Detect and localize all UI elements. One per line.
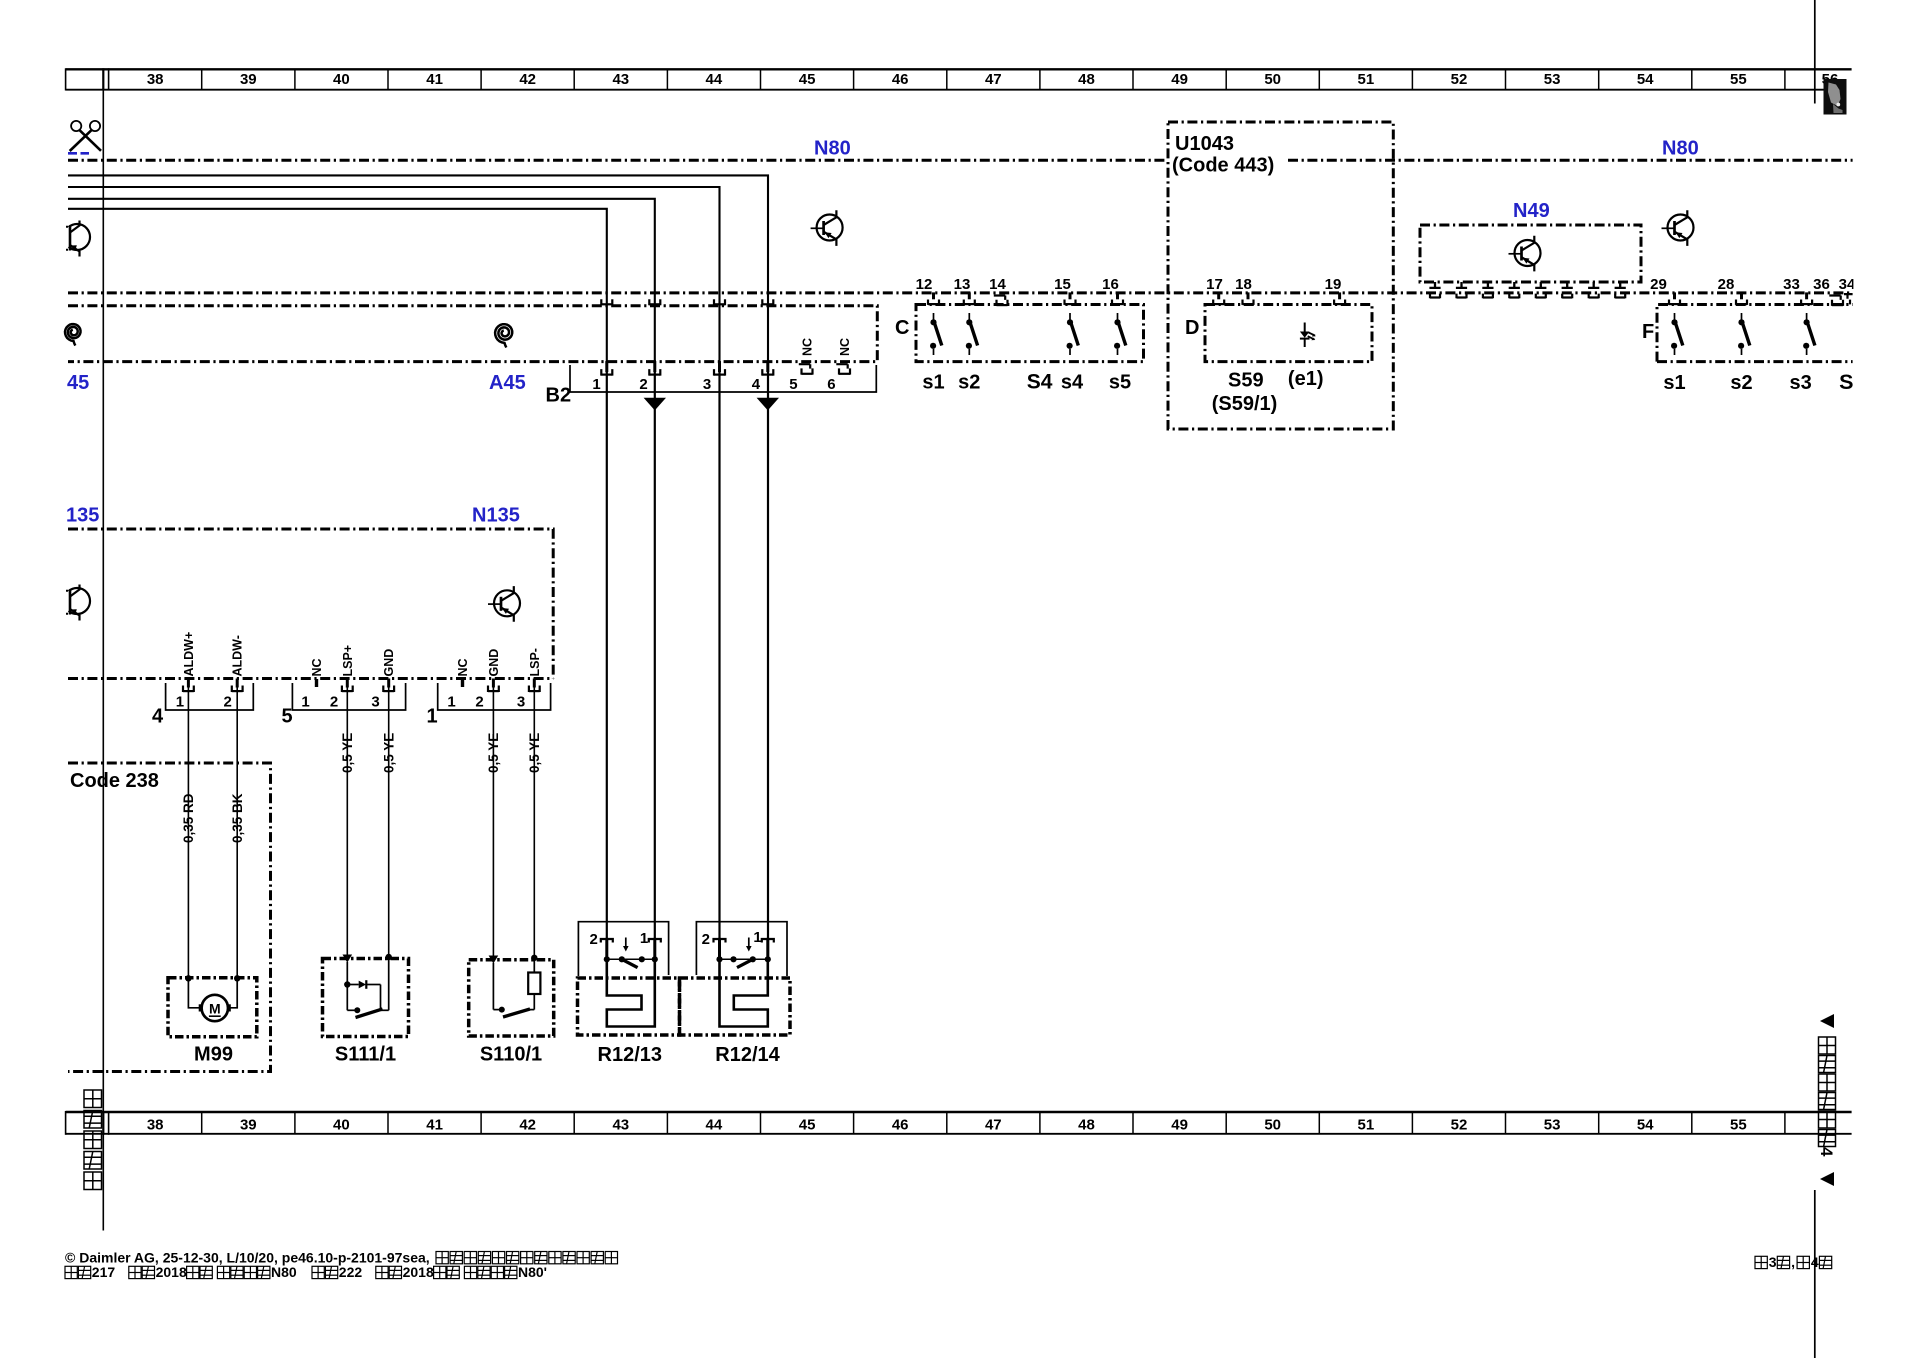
control unit N80 border line (left segment) — [68, 159, 1168, 162]
svg-text:C: C — [895, 317, 909, 339]
vertical text paste-page-4 (CJK placeholder glyphs) — [1817, 1037, 1836, 1157]
svg-text:43: 43 — [612, 71, 629, 88]
svg-text:50: 50 — [1264, 71, 1281, 88]
node M99 pin left — [185, 975, 191, 981]
control unit N135 border — [68, 529, 553, 679]
N49 pin — [1562, 282, 1573, 298]
wire S111/1 left — [346, 679, 348, 955]
N49 pin — [1429, 282, 1440, 298]
svg-text:42: 42 — [519, 71, 536, 88]
svg-text:(S59/1): (S59/1) — [1212, 393, 1278, 415]
node M99 pin right — [234, 975, 240, 981]
control unit A45 border — [68, 306, 877, 362]
svg-text:s5: s5 — [1109, 372, 1131, 394]
paste page 4 marker triangle (top) — [1820, 1014, 1834, 1028]
C pin 13 — [964, 292, 975, 305]
svg-text:1: 1 — [640, 930, 648, 947]
svg-text:U1043: U1043 — [1175, 133, 1234, 155]
grid ruler top — [66, 68, 1852, 90]
svg-text:135: 135 — [66, 505, 99, 527]
S111/1 entry arrow left — [343, 955, 353, 963]
svg-text:18: 18 — [1235, 276, 1252, 293]
F pin 36 (NC) — [1829, 296, 1843, 306]
R12/13 heater element — [607, 959, 655, 1026]
svg-text:5: 5 — [789, 376, 797, 393]
svg-text:52: 52 — [1451, 1116, 1468, 1133]
svg-text:s4: s4 — [1061, 372, 1084, 394]
svg-text:41: 41 — [426, 71, 443, 88]
svg-text:1: 1 — [447, 694, 455, 711]
svg-text:(e1): (e1) — [1288, 368, 1324, 390]
bus border line y293 — [68, 291, 1853, 294]
R12/14 switch — [716, 956, 771, 967]
svg-text:55: 55 — [1730, 1116, 1747, 1133]
group1 pin 2 — [488, 679, 499, 693]
svg-text:16: 16 — [1102, 276, 1119, 293]
svg-text:2: 2 — [590, 931, 598, 948]
svg-text:3: 3 — [703, 376, 711, 393]
svg-text:R12/14: R12/14 — [715, 1044, 780, 1066]
B2 pin 4 — [762, 361, 773, 376]
svg-text:GND: GND — [382, 649, 396, 677]
S110/1 internal circuit — [493, 958, 540, 1017]
svg-text:© Daimler AG, 25-12-30, L/10: © Daimler AG, 25-12-30, L/10/20, pe46.10… — [65, 1250, 430, 1266]
svg-text:s1: s1 — [1663, 372, 1685, 394]
svg-text:2: 2 — [702, 931, 710, 948]
svg-text:3: 3 — [1769, 1254, 1777, 1270]
svg-text:40: 40 — [333, 1116, 350, 1133]
svg-text:2: 2 — [224, 694, 232, 711]
svg-text:42: 42 — [519, 1116, 536, 1133]
svg-text:0,5 YE: 0,5 YE — [527, 733, 542, 773]
S59 pin 19 — [1334, 292, 1345, 305]
R12/13 pin 1 — [649, 938, 661, 960]
svg-text:3: 3 — [371, 694, 379, 711]
footer page number — [1755, 1254, 1832, 1270]
group1 pin 3 — [529, 679, 540, 693]
C pin 15 — [1065, 292, 1076, 305]
wire S110/1 left — [492, 679, 494, 956]
svg-text:5: 5 — [281, 706, 292, 728]
svg-text:NC: NC — [838, 338, 852, 356]
control unit N80 border line (right segment) — [1288, 159, 1853, 162]
svg-text:40: 40 — [333, 71, 350, 88]
svg-text:0,5 YE: 0,5 YE — [340, 733, 355, 773]
motor M99 box — [168, 978, 257, 1037]
R12/14 actuate arrow — [748, 938, 750, 947]
svg-text:28: 28 — [1718, 276, 1735, 293]
B2 pin 2 — [649, 361, 660, 376]
svg-text:2018: 2018 — [403, 1264, 434, 1280]
switch s2 in C — [966, 313, 978, 355]
C pin 12 — [928, 292, 939, 305]
svg-text:54: 54 — [1637, 1116, 1654, 1133]
svg-text:0,35 RD: 0,35 RD — [181, 793, 196, 843]
group5 pin 1 NC tick — [315, 679, 318, 687]
svg-text:44: 44 — [706, 71, 723, 88]
svg-text:43: 43 — [612, 1116, 629, 1133]
svg-text:1: 1 — [301, 694, 309, 711]
grid ruler bottom — [66, 1111, 1852, 1135]
svg-text:3: 3 — [517, 694, 525, 711]
svg-text:55: 55 — [1730, 71, 1747, 88]
svg-text:4: 4 — [1811, 1254, 1819, 1270]
N49 pin — [1615, 282, 1626, 298]
svg-text:ALDW+: ALDW+ — [182, 632, 196, 677]
shield symbol triangle — [644, 398, 666, 411]
B2 NC pin — [836, 364, 850, 374]
C pin 14 (NC) — [994, 296, 1008, 306]
resistor heater R12/13 box (solid) — [578, 922, 668, 976]
switch s1 in F — [1671, 313, 1683, 355]
transistor symbol (left edge lower, cut) — [66, 585, 90, 621]
svg-text:45: 45 — [799, 1116, 816, 1133]
control unit U1043 border — [1168, 122, 1393, 429]
svg-text:N80: N80 — [271, 1264, 297, 1280]
svg-text:1: 1 — [753, 929, 761, 946]
R12/14 pin 2 — [714, 938, 726, 960]
svg-text:38: 38 — [147, 71, 164, 88]
svg-text:B2: B2 — [546, 385, 572, 407]
transistor symbol (left edge, cut) — [66, 221, 90, 257]
wire 4 (to R12/13 pin 2) — [68, 209, 607, 960]
svg-text:s2: s2 — [958, 372, 980, 394]
svg-text:217: 217 — [92, 1264, 116, 1280]
svg-text:49: 49 — [1171, 1116, 1188, 1133]
svg-text:13: 13 — [954, 276, 971, 293]
svg-text:ALDW-: ALDW- — [231, 635, 245, 676]
svg-text:39: 39 — [240, 71, 257, 88]
switch block F border — [1657, 305, 1853, 362]
Code 238 border — [68, 763, 271, 1072]
svg-text:N80': N80' — [518, 1264, 547, 1280]
svg-text:R12/13: R12/13 — [598, 1044, 663, 1066]
wire S111/1 right — [388, 679, 390, 957]
paste page 4 marker triangle (bottom) — [1820, 1172, 1834, 1186]
svg-text:S59: S59 — [1228, 370, 1264, 392]
svg-text:LSP-: LSP- — [528, 648, 542, 676]
S59 pin 18 — [1243, 292, 1254, 305]
svg-text:S: S — [1839, 370, 1853, 394]
svg-text:50: 50 — [1264, 1116, 1281, 1133]
S111/1 internal circuit — [344, 957, 389, 1018]
right page edge vertical line (top) — [1814, 0, 1816, 104]
group4 pin 1 — [183, 679, 194, 693]
svg-text:s1: s1 — [922, 372, 944, 394]
svg-text:1: 1 — [426, 706, 437, 728]
svg-text:45: 45 — [67, 372, 89, 394]
svg-text:17: 17 — [1206, 276, 1223, 293]
scissors cut symbol — [70, 121, 101, 151]
svg-text:14: 14 — [989, 276, 1006, 293]
svg-text:6: 6 — [827, 376, 835, 393]
svg-text:0,5 YE: 0,5 YE — [486, 733, 501, 773]
svg-text:46: 46 — [892, 1116, 909, 1133]
svg-text:53: 53 — [1544, 71, 1561, 88]
svg-text:S110/1: S110/1 — [480, 1044, 542, 1066]
svg-text:29: 29 — [1650, 276, 1667, 293]
svg-text:12: 12 — [916, 276, 933, 293]
svg-text:19: 19 — [1325, 276, 1342, 293]
svg-text:0,5 YE: 0,5 YE — [382, 733, 397, 773]
switch s4 in C — [1067, 313, 1079, 355]
svg-text:M99: M99 — [194, 1044, 233, 1066]
R12/14 pin 1 — [762, 938, 774, 960]
R12/13 actuate arrow — [625, 938, 627, 947]
wire 3 (to R12/13 pin 1) — [68, 199, 655, 960]
switch s2 in F — [1738, 313, 1750, 355]
svg-text:Code 238: Code 238 — [70, 770, 159, 792]
vertical text cut-along-line (CJK placeholder glyphs) — [84, 1090, 102, 1190]
R12/14 heater element — [720, 959, 768, 1026]
svg-text:33: 33 — [1783, 276, 1800, 293]
svg-text:49: 49 — [1171, 71, 1188, 88]
svg-text:34: 34 — [1839, 276, 1856, 293]
svg-text:45: 45 — [799, 71, 816, 88]
svg-text:1: 1 — [592, 376, 600, 393]
wire M99 internal left — [188, 978, 200, 1008]
svg-text:NC: NC — [456, 658, 470, 676]
F pin 28 — [1736, 292, 1747, 305]
transistor symbol in N49 — [1509, 236, 1541, 272]
svg-text:S111/1: S111/1 — [335, 1044, 396, 1066]
svg-text:46: 46 — [892, 71, 909, 88]
transistor symbol (wire 43/44 area) — [811, 210, 843, 246]
R12/13 switch — [604, 956, 658, 967]
blue cut dashes — [68, 152, 89, 155]
svg-text:4: 4 — [152, 706, 164, 728]
svg-text:51: 51 — [1358, 1116, 1375, 1133]
F pin 33 — [1801, 292, 1812, 305]
S59 pin 17 — [1213, 292, 1224, 305]
svg-text:NC: NC — [310, 658, 324, 676]
svg-text:39: 39 — [240, 1116, 257, 1133]
svg-text:15: 15 — [1054, 276, 1071, 293]
svg-text:D: D — [1185, 317, 1199, 339]
svg-text:NC: NC — [801, 338, 815, 356]
switch S111/1 box — [323, 959, 409, 1037]
svg-text:2: 2 — [475, 694, 483, 711]
B2 NC pin — [799, 364, 813, 374]
S110/1 node right — [531, 955, 537, 961]
wire M99 ALDW- — [236, 679, 238, 978]
switch s5 in C — [1114, 313, 1126, 355]
svg-text:38: 38 — [147, 1116, 164, 1133]
svg-text:S4: S4 — [1027, 371, 1053, 394]
transistor symbol in N135 — [488, 586, 520, 622]
switch s1 in C — [930, 313, 942, 355]
switch S110/1 box — [469, 960, 554, 1036]
group5 pin 3 — [383, 679, 394, 693]
svg-text:N135: N135 — [472, 505, 520, 527]
svg-text:4: 4 — [752, 376, 761, 393]
svg-text:222: 222 — [339, 1264, 363, 1280]
svg-text:1: 1 — [176, 694, 184, 711]
S111/1 node right — [386, 954, 392, 960]
wire M99 internal right — [230, 978, 238, 1008]
svg-text:N80: N80 — [1662, 138, 1699, 160]
footer line 2 — [65, 1264, 547, 1280]
svg-text:2: 2 — [639, 376, 647, 393]
svg-text:53: 53 — [1544, 1116, 1561, 1133]
B2 pin 1 — [601, 361, 612, 376]
svg-text:(Code 443): (Code 443) — [1172, 155, 1274, 177]
motor M99 symbol — [199, 995, 231, 1021]
clock spring spiral (left, cut) — [65, 324, 81, 346]
svg-text:44: 44 — [706, 1116, 723, 1133]
svg-text:,: , — [1791, 1254, 1795, 1270]
svg-text:48: 48 — [1078, 71, 1095, 88]
svg-text:41: 41 — [426, 1116, 443, 1133]
black registration mark — [1824, 79, 1847, 115]
svg-text:0,35 BK: 0,35 BK — [230, 793, 245, 843]
svg-text:51: 51 — [1358, 71, 1375, 88]
svg-text:s2: s2 — [1730, 372, 1752, 394]
svg-text:F: F — [1642, 321, 1654, 343]
connector group 1 bracket — [438, 683, 551, 710]
svg-text:54: 54 — [1637, 71, 1654, 88]
shield symbol triangle — [757, 398, 779, 411]
svg-text:LSP+: LSP+ — [341, 645, 355, 677]
R12/14 heater dash box — [680, 978, 791, 1035]
transistor symbol right — [1662, 210, 1694, 246]
svg-text:N49: N49 — [1513, 200, 1550, 222]
connector group 5 bracket — [292, 683, 405, 710]
page edge white mask — [1853, 270, 1883, 294]
svg-text:N80: N80 — [814, 138, 851, 160]
switch s3 in F — [1803, 313, 1815, 355]
wire 1 (to R12/14 pin 1) — [68, 175, 768, 959]
svg-text:M: M — [209, 1000, 221, 1016]
N49 pin — [1482, 282, 1493, 298]
clock spring spiral A45 — [495, 324, 512, 347]
C pin 16 — [1112, 292, 1123, 305]
switch block C border — [916, 305, 1144, 362]
S110/1 entry arrow left — [489, 956, 499, 964]
N49 pin — [1535, 282, 1546, 298]
R12/13 heater dash box — [578, 978, 680, 1035]
N49 pin — [1456, 282, 1467, 298]
F pin 34 (cut at edge) — [1844, 294, 1853, 304]
svg-text:4: 4 — [1817, 1147, 1836, 1157]
N49 pin — [1509, 282, 1520, 298]
svg-text:48: 48 — [1078, 1116, 1095, 1133]
connector group 4 bracket — [166, 683, 254, 710]
svg-text:36: 36 — [1813, 276, 1830, 293]
svg-text:2018: 2018 — [156, 1264, 187, 1280]
svg-text:52: 52 — [1451, 71, 1468, 88]
svg-text:s3: s3 — [1789, 372, 1811, 394]
group4 pin 2 — [232, 679, 243, 693]
svg-text:47: 47 — [985, 1116, 1002, 1133]
B2 pin 3 — [714, 361, 725, 376]
switch S59 border — [1205, 305, 1372, 362]
control unit N49 border — [1420, 225, 1641, 282]
F pin 29 — [1669, 292, 1680, 305]
svg-text:GND: GND — [487, 649, 501, 677]
R12/13 pin 2 — [601, 938, 613, 960]
connector B2 box — [570, 365, 876, 392]
right page edge vertical line (bottom) — [1814, 1190, 1816, 1358]
svg-text:A45: A45 — [489, 372, 526, 394]
page cut line vertical — [102, 90, 104, 1231]
svg-text:2: 2 — [330, 694, 338, 711]
wire M99 ALDW+ — [187, 679, 189, 978]
resistor heater R12/14 box (solid) — [696, 922, 787, 976]
LED e1 in S59 — [1300, 323, 1316, 348]
wire 2 (to R12/14 pin 2) — [68, 187, 720, 960]
wire S110/1 right — [533, 679, 535, 958]
svg-text:47: 47 — [985, 71, 1002, 88]
group5 pin 2 — [342, 679, 353, 693]
N49 pin — [1588, 282, 1599, 298]
group1 pin 1 NC tick — [461, 679, 464, 687]
